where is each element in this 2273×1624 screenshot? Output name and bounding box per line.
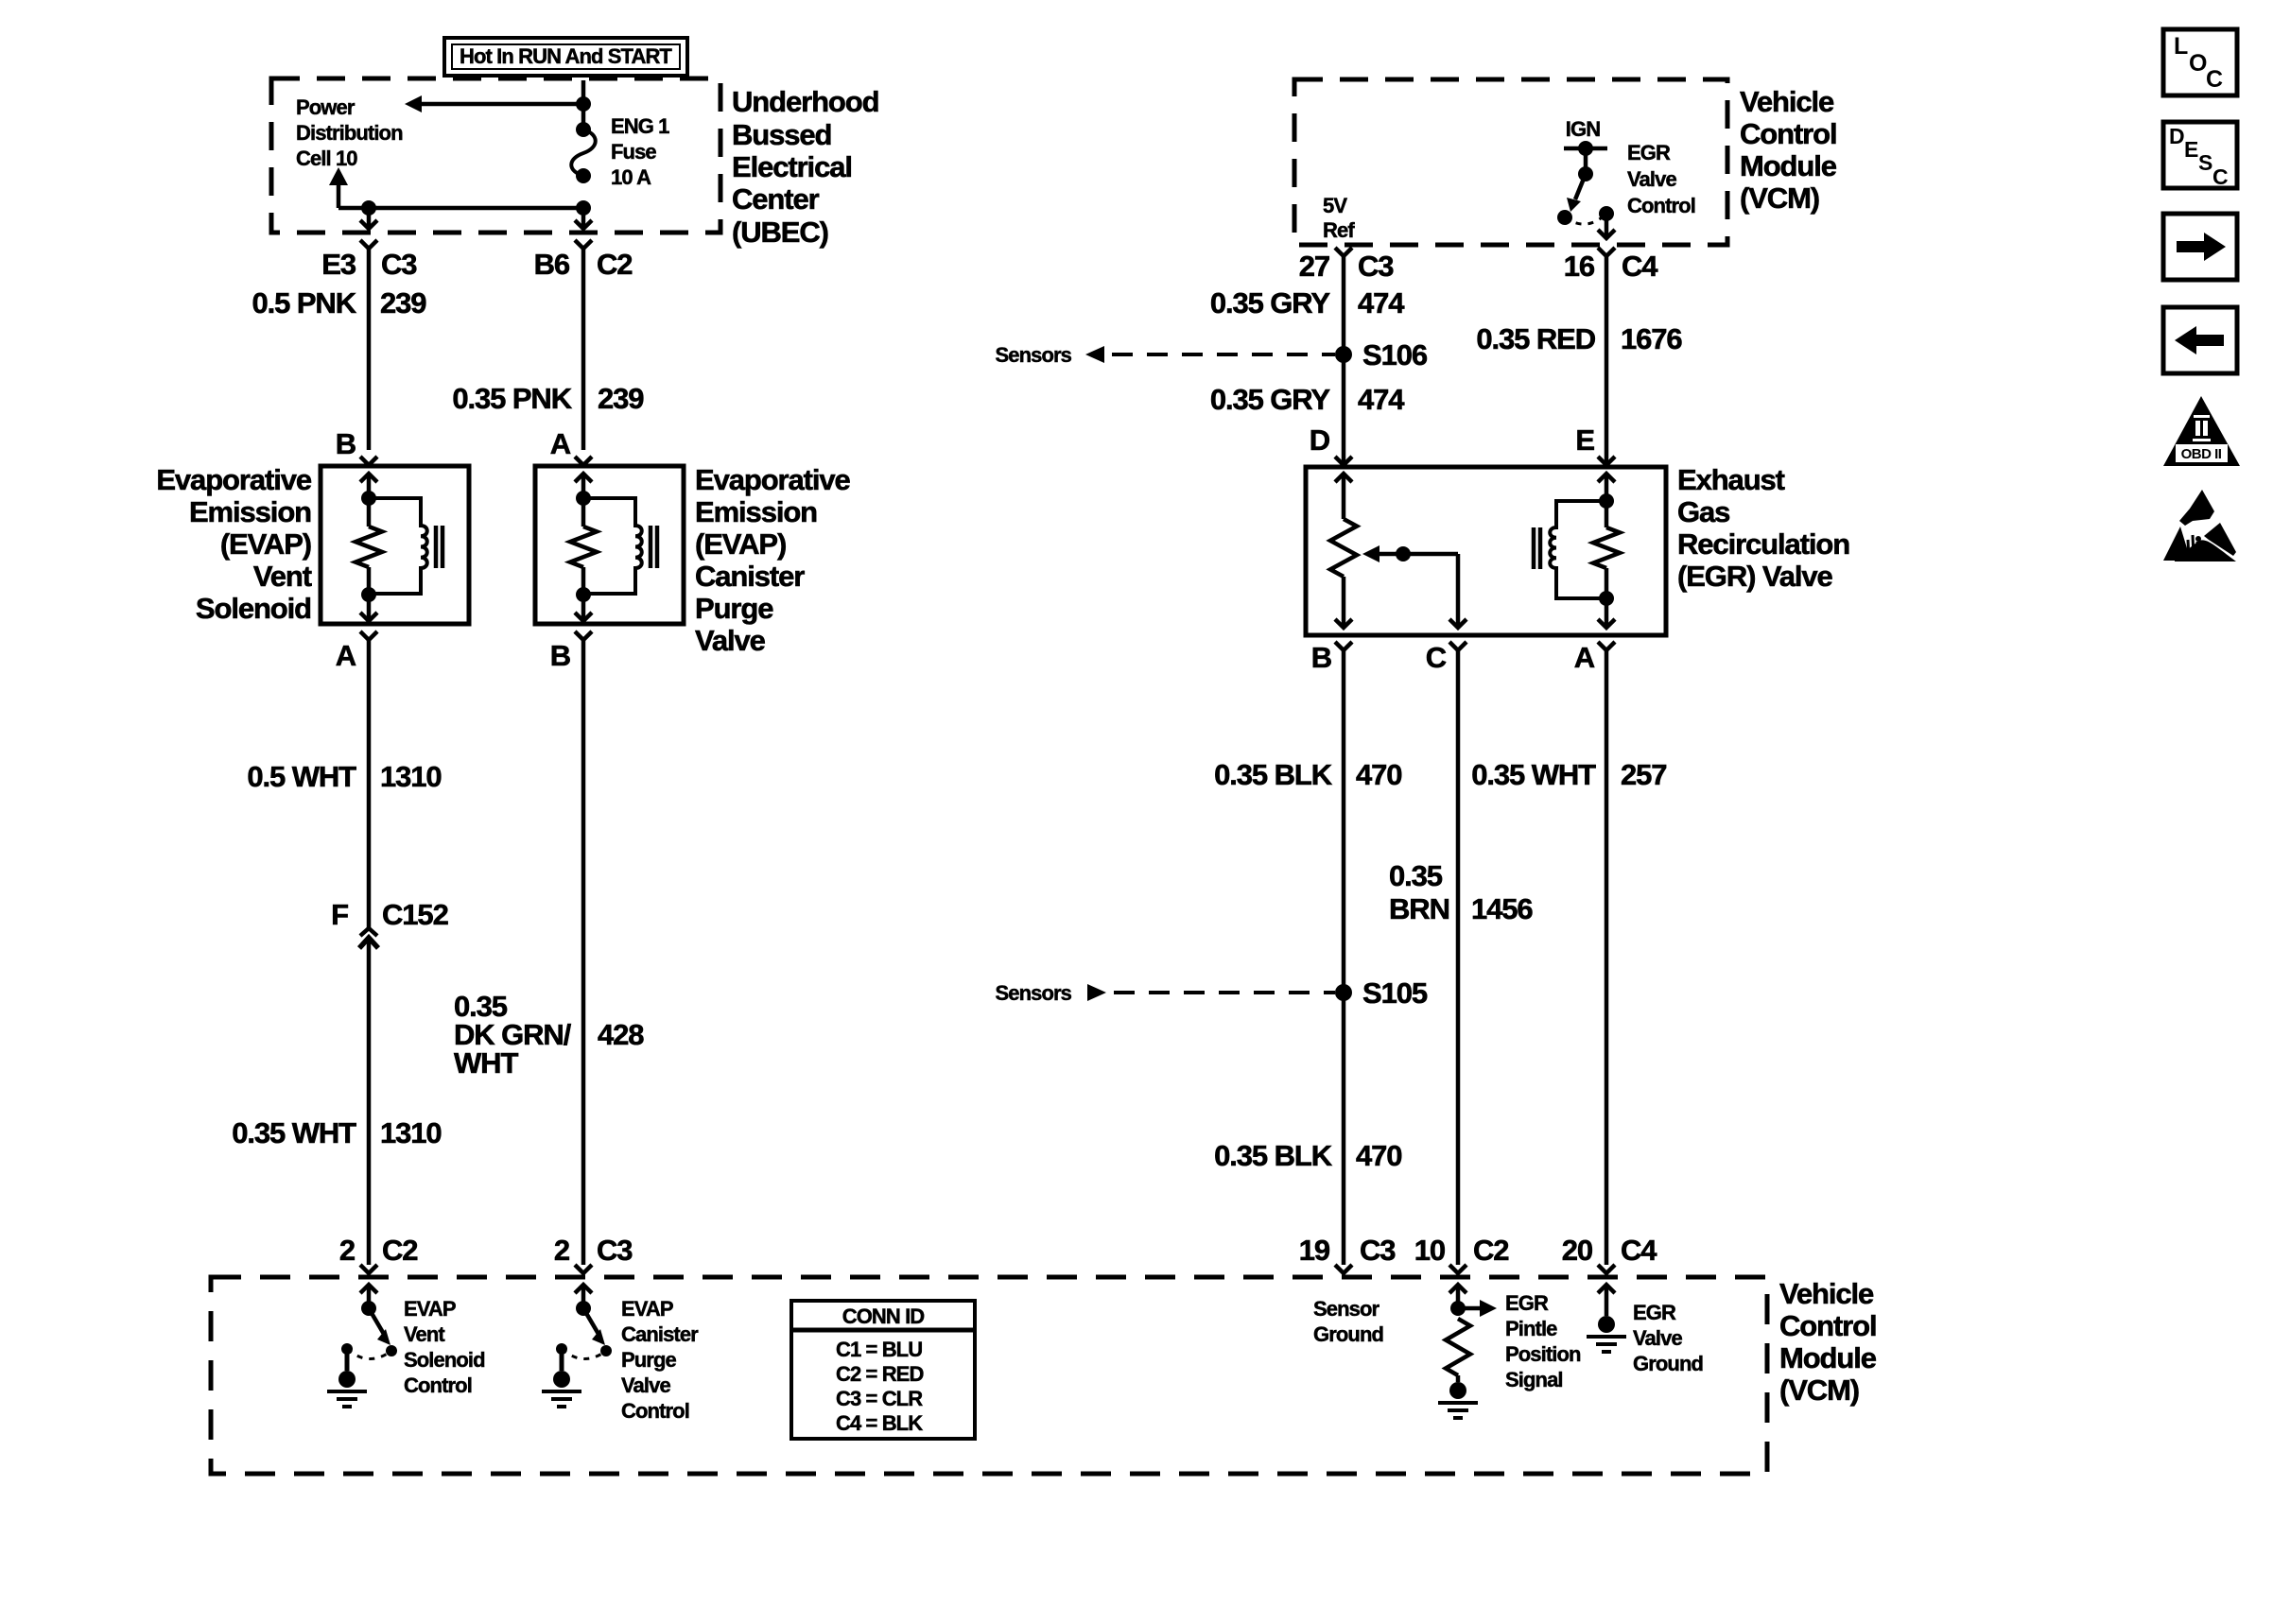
svg-text:Sensors: Sensors	[995, 981, 1071, 1005]
svg-text:C2 = RED: C2 = RED	[836, 1362, 923, 1386]
wire: 0.35 DK GRN/WHT 428	[581, 640, 586, 1265]
resistor of EGR solenoid	[1605, 501, 1609, 527]
svg-text:Signal: Signal	[1505, 1368, 1563, 1391]
EGR pintle signal wire inside box	[1456, 554, 1461, 628]
svg-text:0.35: 0.35	[1389, 859, 1443, 892]
svg-text:L: L	[2174, 33, 2188, 60]
VCM bottom dashed box	[211, 1277, 1767, 1474]
wire: feed to Power Distribution (left arrow)	[422, 102, 583, 107]
svg-text:0.35 WHT: 0.35 WHT	[232, 1116, 356, 1149]
svg-text:474: 474	[1358, 286, 1405, 320]
svg-text:Position: Position	[1505, 1342, 1581, 1366]
svg-text:EGR: EGR	[1633, 1301, 1676, 1324]
svg-text:Pintle: Pintle	[1505, 1317, 1557, 1340]
coil core EVAP canister purge	[649, 526, 653, 568]
svg-text:Sensors: Sensors	[995, 343, 1071, 367]
svg-text:0.35 BLK: 0.35 BLK	[1214, 758, 1333, 791]
svg-text:Center: Center	[732, 182, 820, 216]
EGR valve ground input	[1605, 1287, 1609, 1316]
svg-text:428: 428	[598, 1018, 644, 1051]
svg-text:Solenoid: Solenoid	[196, 592, 311, 625]
node: purge top	[576, 491, 591, 506]
svg-text:D: D	[1310, 423, 1330, 457]
svg-text:0.35 PNK: 0.35 PNK	[452, 382, 572, 415]
svg-text:Control: Control	[1627, 194, 1695, 217]
connector pin B6/C2	[575, 240, 592, 249]
svg-text:Valve: Valve	[1627, 167, 1676, 191]
svg-text:5V: 5V	[1323, 194, 1347, 217]
EVAP canister purge internal wire bottom	[581, 595, 586, 619]
svg-text:CONN ID: CONN ID	[842, 1304, 925, 1328]
svg-text:257: 257	[1621, 758, 1666, 791]
svg-text:C: C	[2206, 66, 2223, 93]
wire: 0.5 PNK 239	[367, 249, 372, 450]
resistor of EVAP vent solenoid	[367, 498, 372, 527]
coil core EVAP vent solenoid	[434, 526, 439, 568]
wire: hot feed into UBEC	[581, 80, 586, 130]
icon arrow right	[2163, 214, 2237, 280]
svg-text:C3: C3	[381, 248, 417, 281]
pin 16/C4 VCM	[1598, 248, 1615, 256]
svg-text:Recirculation: Recirculation	[1677, 527, 1849, 561]
svg-text:Bussed: Bussed	[732, 118, 831, 151]
svg-text:C3: C3	[597, 1234, 633, 1267]
svg-text:Control: Control	[404, 1373, 472, 1397]
EVAP vent switch dashed arc	[347, 1349, 391, 1359]
svg-text:Distribution: Distribution	[296, 121, 403, 145]
icon arrow left	[2163, 307, 2237, 373]
EVAP purge switch pole and ground	[556, 1343, 567, 1355]
svg-text:C4 = BLK: C4 = BLK	[836, 1411, 923, 1435]
svg-text:0.5 PNK: 0.5 PNK	[252, 286, 357, 320]
svg-text:C152: C152	[382, 898, 448, 931]
pin 27/C3 VCM	[1335, 248, 1352, 256]
svg-text:Vent: Vent	[404, 1322, 445, 1346]
svg-text:Emission: Emission	[695, 495, 817, 528]
svg-text:WHT: WHT	[454, 1046, 518, 1080]
svg-text:(VCM): (VCM)	[1740, 181, 1819, 215]
potentiometer wiper of EGR valve	[1362, 545, 1379, 562]
svg-text:O: O	[2189, 50, 2207, 77]
svg-text:Exhaust: Exhaust	[1677, 463, 1785, 496]
resistor EGR pintle pull-up	[1446, 1319, 1470, 1375]
svg-text:OBD II: OBD II	[2181, 446, 2222, 462]
svg-text:EGR: EGR	[1627, 141, 1671, 164]
svg-text:Power: Power	[296, 95, 356, 119]
svg-text:Hot In RUN And START: Hot In RUN And START	[460, 44, 672, 68]
svg-text:0.5 WHT: 0.5 WHT	[247, 760, 356, 793]
svg-text:C3: C3	[1360, 1234, 1396, 1267]
svg-text:470: 470	[1356, 1139, 1401, 1172]
EVAP vent solenoid control switch	[367, 1287, 372, 1308]
svg-text:Control: Control	[1779, 1309, 1877, 1342]
pin B below EVAP canister purge	[575, 631, 592, 640]
svg-text:Vehicle: Vehicle	[1740, 85, 1834, 118]
svg-text:A: A	[550, 427, 571, 460]
svg-text:Solenoid: Solenoid	[404, 1348, 485, 1372]
svg-text:EGR: EGR	[1505, 1291, 1549, 1315]
coil of EGR solenoid	[1550, 501, 1606, 598]
svg-text:1310: 1310	[380, 1116, 442, 1149]
svg-text:C2: C2	[382, 1234, 417, 1267]
svg-text:Purge: Purge	[621, 1348, 677, 1372]
EVAP vent solenoid internal wire bottom	[367, 595, 372, 619]
svg-text:Valve: Valve	[1633, 1326, 1682, 1350]
wire: 0.35 WHT 257	[1605, 650, 1609, 1265]
wire: 0.35 WHT 1310	[367, 938, 372, 1265]
EGR switch exit arrow	[1605, 214, 1609, 236]
svg-text:Electrical: Electrical	[732, 150, 852, 183]
icon OBD II triangle	[2163, 396, 2240, 466]
wire: UBEC exit right with arrow	[581, 208, 586, 227]
svg-text:470: 470	[1356, 758, 1401, 791]
pin A below EVAP vent solenoid	[360, 631, 377, 640]
EVAP canister purge valve box	[535, 466, 684, 624]
svg-text:C4: C4	[1621, 1234, 1657, 1267]
svg-text:C2: C2	[1473, 1234, 1508, 1267]
wire: 0.5 WHT 1310	[367, 640, 372, 928]
svg-text:EVAP: EVAP	[621, 1297, 673, 1321]
svg-text:Valve: Valve	[621, 1373, 670, 1397]
svg-text:Module: Module	[1779, 1341, 1877, 1374]
splice S105	[1335, 984, 1352, 1001]
node: solenoid bottom	[361, 587, 376, 602]
svg-text:B6: B6	[534, 248, 570, 281]
svg-text:B: B	[1311, 641, 1331, 674]
svg-text:F: F	[331, 898, 348, 931]
coil of EVAP vent solenoid	[369, 498, 427, 594]
svg-text:Evaporative: Evaporative	[156, 463, 312, 496]
EVAP purge switch dashed arc	[562, 1349, 606, 1359]
svg-text:20: 20	[1562, 1234, 1592, 1267]
svg-text:IGN: IGN	[1566, 117, 1600, 141]
node: bus junction left	[361, 200, 376, 216]
svg-text:Vehicle: Vehicle	[1779, 1277, 1874, 1310]
svg-text:0.35 BLK: 0.35 BLK	[1214, 1139, 1333, 1172]
wire: UBEC bus	[338, 206, 583, 211]
pin A below EGR valve	[1598, 642, 1615, 650]
svg-text:Ground: Ground	[1313, 1322, 1383, 1346]
svg-text:Emission: Emission	[189, 495, 311, 528]
coil core EGR	[1532, 527, 1536, 569]
power feed label box: Hot In RUN And START	[444, 38, 687, 76]
svg-text:239: 239	[598, 382, 644, 415]
icon DESC	[2163, 122, 2237, 188]
svg-text:A: A	[336, 639, 356, 672]
fuse ENG 1 10A	[576, 122, 591, 137]
node: bus junction right	[576, 200, 591, 216]
svg-text:27: 27	[1299, 250, 1329, 283]
svg-text:Ground: Ground	[1633, 1352, 1703, 1375]
svg-text:Control: Control	[1740, 117, 1837, 150]
svg-text:BRN: BRN	[1389, 892, 1449, 925]
svg-text:Fuse: Fuse	[611, 140, 656, 164]
icon LOC	[2163, 29, 2237, 95]
svg-text:0.35 WHT: 0.35 WHT	[1471, 758, 1596, 791]
splice S106	[1335, 346, 1352, 363]
pin C below EGR valve	[1449, 642, 1466, 650]
node: EGR coil bottom	[1599, 591, 1614, 606]
wire: UBEC exit left with arrow	[367, 208, 372, 227]
svg-text:Underhood: Underhood	[732, 85, 878, 118]
wire: 0.35 BRN 1456	[1456, 650, 1461, 1265]
svg-text:0.35 RED: 0.35 RED	[1476, 322, 1595, 355]
svg-text:(EVAP): (EVAP)	[695, 527, 786, 561]
potentiometer resistor of EGR valve	[1330, 519, 1357, 577]
svg-text:S105: S105	[1362, 976, 1428, 1010]
wire: 0.35 GRY 474 upper	[1342, 256, 1346, 463]
node: EGR coil top	[1599, 493, 1614, 509]
svg-text:474: 474	[1358, 383, 1405, 416]
svg-text:1676: 1676	[1621, 322, 1682, 355]
ground EGR valve	[1598, 1316, 1615, 1333]
icon ESD triangle	[2179, 490, 2214, 526]
svg-text:EVAP: EVAP	[404, 1297, 456, 1321]
svg-text:2: 2	[554, 1234, 569, 1267]
wire: 0.35 RED 1676	[1605, 256, 1609, 463]
svg-text:Control: Control	[621, 1399, 689, 1423]
svg-text:S106: S106	[1362, 338, 1428, 371]
svg-text:C4: C4	[1622, 250, 1658, 283]
EGR pintle position signal input	[1456, 1287, 1461, 1308]
svg-text:10 A: 10 A	[611, 165, 651, 189]
EGR valve box	[1306, 467, 1666, 635]
svg-text:19: 19	[1299, 1234, 1330, 1267]
svg-text:C: C	[1426, 641, 1447, 674]
svg-text:Ref: Ref	[1323, 218, 1355, 242]
svg-text:(EGR) Valve: (EGR) Valve	[1677, 560, 1832, 593]
svg-text:10: 10	[1414, 1234, 1445, 1267]
svg-text:S: S	[2198, 150, 2212, 175]
svg-text:Evaporative: Evaporative	[695, 463, 851, 496]
svg-text:ENG 1: ENG 1	[611, 114, 669, 138]
node: solenoid top	[361, 491, 376, 506]
resistor of EVAP canister purge valve	[581, 498, 586, 527]
EGR switch dashed arc	[1565, 214, 1606, 224]
svg-text:E: E	[1575, 423, 1594, 457]
svg-text:Sensor: Sensor	[1313, 1297, 1380, 1321]
UBEC dashed box	[271, 78, 720, 233]
EGR coil wire top	[1605, 474, 1609, 501]
svg-text:E: E	[2184, 137, 2198, 162]
svg-text:16: 16	[1564, 250, 1595, 283]
svg-text:(EVAP): (EVAP)	[220, 527, 311, 561]
svg-text:Valve: Valve	[695, 624, 766, 657]
svg-text:(UBEC): (UBEC)	[732, 216, 828, 249]
svg-text:E3: E3	[321, 248, 356, 281]
svg-text:(VCM): (VCM)	[1779, 1373, 1859, 1407]
CONN ID table	[791, 1301, 975, 1439]
coil of EVAP canister purge valve	[583, 498, 642, 594]
svg-text:A: A	[1574, 641, 1595, 674]
svg-text:Cell 10: Cell 10	[296, 147, 357, 170]
wire: 0.35 PNK 239	[581, 249, 586, 450]
svg-text:0.35 GRY: 0.35 GRY	[1210, 286, 1331, 320]
svg-text:Gas: Gas	[1677, 495, 1729, 528]
EVAP vent solenoid internal wire top	[367, 474, 372, 498]
ground EGR pintle	[1449, 1382, 1466, 1399]
node: purge bottom	[576, 587, 591, 602]
svg-text:0.35 GRY: 0.35 GRY	[1210, 383, 1331, 416]
wire: 0.35 BLK 470 upper	[1342, 650, 1346, 1265]
svg-text:Canister: Canister	[621, 1322, 699, 1346]
svg-text:Module: Module	[1740, 149, 1837, 182]
svg-text:C1 = BLU: C1 = BLU	[836, 1338, 922, 1361]
svg-text:1310: 1310	[380, 760, 442, 793]
EGR pot wire top	[1342, 474, 1346, 519]
svg-text:C3 = CLR: C3 = CLR	[836, 1387, 923, 1410]
VCM top dashed box	[1294, 79, 1727, 245]
node: hot feed junction	[576, 96, 591, 112]
svg-text:B: B	[336, 427, 356, 460]
svg-text:B: B	[550, 639, 570, 672]
EVAP vent switch pole and ground	[341, 1343, 353, 1355]
svg-text:C: C	[2212, 164, 2229, 189]
svg-text:Vent: Vent	[253, 560, 312, 593]
svg-text:1456: 1456	[1471, 892, 1533, 925]
svg-text:C3: C3	[1358, 250, 1394, 283]
EVAP canister purge valve control switch	[581, 1287, 586, 1308]
EVAP canister purge internal wire top	[581, 474, 586, 498]
svg-text:Canister: Canister	[695, 560, 805, 593]
arrow up to Power Distribution Cell 10	[337, 185, 341, 208]
svg-text:D: D	[2169, 124, 2185, 148]
EVAP vent solenoid box	[321, 466, 469, 624]
pin B below EGR valve	[1335, 642, 1352, 650]
svg-text:C2: C2	[597, 248, 632, 281]
svg-text:Purge: Purge	[695, 592, 773, 625]
connector pin E3/C3	[360, 240, 377, 249]
svg-text:239: 239	[380, 286, 426, 320]
svg-text:2: 2	[339, 1234, 355, 1267]
EGR coil wire bottom	[1605, 598, 1609, 628]
EGR valve control switch	[1564, 147, 1607, 151]
